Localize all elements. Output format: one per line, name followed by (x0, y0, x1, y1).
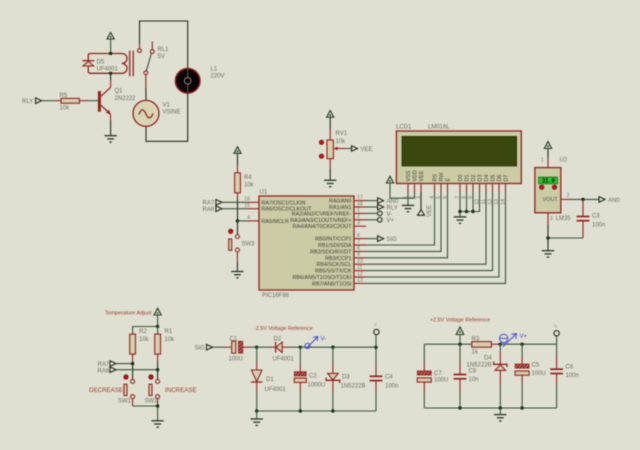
svg-text:D1: D1 (266, 377, 274, 383)
svg-text:D7: D7 (504, 175, 510, 182)
svg-text:10k: 10k (165, 337, 176, 343)
wire: LM35 VOUT to AN0 (561, 193, 599, 199)
wire: junction to right corner (500, 343, 556, 345)
ground (-2.5V rail) (251, 411, 263, 425)
svg-text:1N5222B: 1N5222B (341, 384, 366, 390)
terminal V+ (PIC pin 2) (366, 218, 395, 225)
lamp L1 220V (175, 67, 224, 94)
svg-text:4: 4 (247, 215, 250, 221)
svg-text:10k: 10k (336, 139, 347, 145)
capacitor C6 100n (550, 344, 579, 408)
svg-text:VEE: VEE (361, 147, 373, 153)
wire: C3 bottom to LM35 ground (548, 237, 583, 239)
svg-text:AN0: AN0 (387, 199, 399, 205)
terminal circle (+2.5V output) (554, 324, 559, 345)
svg-text:D6: D6 (497, 175, 503, 182)
capacitor C5 100U (515, 344, 546, 408)
terminal RLY (PIC pin 18) (366, 204, 398, 211)
svg-text:Q1: Q1 (115, 89, 124, 95)
svg-text:RA7: RA7 (98, 362, 110, 368)
resistor R3 1k (472, 337, 501, 356)
resistor R1 10k (155, 327, 175, 380)
svg-text:C8: C8 (469, 369, 477, 375)
svg-text:²₀: ²₀ (554, 324, 557, 329)
svg-text:100n: 100n (566, 373, 579, 379)
terminal AN0 (PIC pin 17) (366, 198, 399, 205)
svg-text:V-: V- (387, 212, 393, 218)
svg-text:6: 6 (357, 233, 360, 239)
wire: LCD D4 to PIC RB4 (366, 192, 486, 264)
terminal V- (PIC pin 1) (366, 211, 392, 218)
relay switch RL1 contacts (138, 41, 170, 74)
svg-text:C3: C3 (592, 214, 600, 220)
wire: LCD VSS to ground (407, 192, 409, 205)
svg-text:RA7/OSC1/CLKIN: RA7/OSC1/CLKIN (262, 200, 306, 206)
wire: +2.5V top rail left (424, 343, 472, 345)
resistor R5 10k (55, 93, 98, 112)
transistor Q1 2N2222 (98, 75, 136, 122)
svg-text:RA6: RA6 (203, 207, 215, 213)
wire: LM35 pin 3 to ground (548, 213, 553, 251)
wire: LCD RS to PIC RB1 (366, 192, 435, 245)
svg-text:UF4001: UF4001 (97, 67, 119, 73)
capacitor C7 100U (417, 344, 448, 408)
node D0 bus junctions (458, 210, 474, 213)
svg-text:10k: 10k (244, 183, 255, 189)
lcd LCD1 LM016L body (396, 125, 521, 184)
power symbol (temperature adjust) (154, 308, 161, 326)
svg-text:R3: R3 (472, 337, 480, 343)
svg-text:D5: D5 (97, 60, 105, 66)
capacitor C1 100U (225, 337, 257, 363)
pic U1 PIC16F88 body (259, 190, 354, 300)
svg-text:RA2/AN2/CVREF/VREF-: RA2/AN2/CVREF/VREF- (292, 211, 352, 217)
relay coil RL1 (88, 51, 133, 76)
power symbol (LCD VDD) (386, 176, 393, 183)
svg-text:RV1: RV1 (336, 131, 348, 137)
svg-text:3: 3 (550, 216, 553, 222)
pic U1 left pin stubs (244, 197, 259, 222)
capacitor C4 100n (370, 347, 399, 411)
power symbol (relay coil supply) (107, 33, 114, 54)
svg-text:RB7/AN6/T1OSI: RB7/AN6/T1OSI (312, 281, 352, 287)
svg-text:V+: V+ (387, 218, 395, 224)
terminal SIG (PIC pin 6) (366, 236, 397, 243)
wire: MCLR to PIC pin 4 (238, 220, 248, 222)
svg-text:220V: 220V (211, 74, 225, 80)
svg-text:+2.5V Voltage Reference: +2.5V Voltage Reference (430, 318, 490, 324)
svg-text:-2.5V Voltage Reference: -2.5V Voltage Reference (254, 326, 313, 332)
pic U1 right pin names (290, 199, 352, 288)
svg-text:2: 2 (357, 214, 360, 220)
wire: lamp bottom to rail (146, 93, 188, 141)
svg-text:11: 11 (357, 265, 362, 271)
svg-text:D2: D2 (471, 175, 477, 182)
svg-text:RB1/SDI/SDA: RB1/SDI/SDA (318, 243, 352, 249)
ground (LM35) (542, 251, 554, 257)
terminal RA6 (bottom left) (98, 367, 158, 375)
ground (LCD VSS) (402, 205, 414, 211)
svg-text:RB4/SCK/SCL: RB4/SCK/SCL (316, 262, 351, 268)
wire: top rail to lamp (140, 21, 188, 69)
svg-text:C5: C5 (532, 363, 540, 369)
svg-text:D3: D3 (342, 375, 350, 381)
svg-text:C2: C2 (309, 374, 317, 380)
wire: junction to D2 (257, 346, 270, 348)
svg-text:D2: D2 (274, 337, 282, 343)
node R1 top junction (156, 325, 159, 328)
node VOUT/C3 junction (581, 198, 584, 201)
lcd pin names (rotated) (406, 170, 510, 181)
svg-text:SW2: SW2 (145, 399, 159, 405)
diode D1 UF4001 (251, 347, 287, 411)
svg-text:18: 18 (357, 201, 363, 207)
wire: output rail to C4 (300, 346, 376, 348)
terminal circle (-2.5V output) (374, 323, 380, 348)
svg-text:R4: R4 (244, 175, 252, 181)
svg-text:D4: D4 (484, 175, 490, 182)
svg-text:100n: 100n (592, 223, 605, 229)
svg-text:100U: 100U (229, 357, 243, 363)
diode D2 UF4001 (270, 337, 301, 363)
svg-text:D0: D0 (458, 175, 464, 182)
terminal AN0 (LM35 out) (599, 197, 620, 204)
capacitor C3 100n (577, 199, 606, 238)
svg-text:C6: C6 (566, 365, 574, 371)
svg-text:VDD: VDD (413, 170, 419, 181)
svg-text:RB3/CCP1: RB3/CCP1 (325, 256, 351, 262)
svg-text:R1: R1 (165, 329, 173, 335)
svg-text:V-: V- (321, 337, 327, 343)
wire: LCD D7 to PIC RB7 (366, 192, 506, 283)
svg-text:R5: R5 (60, 93, 68, 99)
sine source V1 VSINE (133, 100, 181, 126)
svg-text:VSS: VSS (406, 170, 412, 181)
lcd pin stubs (408, 184, 506, 193)
node R3/D4 junction (499, 343, 502, 346)
svg-text:C4: C4 (385, 375, 393, 381)
svg-text:1: 1 (357, 208, 360, 214)
svg-text:RLY: RLY (22, 99, 33, 105)
power symbol (LM35) (541, 142, 568, 168)
svg-text:VOUT: VOUT (543, 197, 559, 203)
capacitor C2 1000U (294, 347, 325, 411)
svg-text:V+: V+ (520, 334, 528, 340)
svg-text:10: 10 (357, 259, 363, 265)
node: coil top junction (109, 52, 112, 55)
resistor R2 10k (130, 329, 150, 380)
wire: R4 to SW3 / MCLR node (237, 193, 239, 235)
pic U1 left pin names (262, 200, 313, 225)
svg-text:RA4/AN4/T0CKI/C2OUT: RA4/AN4/T0CKI/C2OUT (292, 224, 352, 230)
zener D3 1N5222B (326, 347, 365, 411)
svg-text:12: 12 (357, 271, 363, 277)
svg-text:AN0: AN0 (608, 198, 620, 204)
terminal VEE (LCD pin3) (418, 192, 434, 217)
resistor R4 10k (235, 173, 255, 193)
ground (SW3) (231, 272, 243, 278)
node bottom rail junctions (+2.5V) (458, 406, 524, 409)
wire: switches to ground (133, 406, 158, 421)
svg-text:RA1/AN1: RA1/AN1 (329, 205, 351, 211)
svg-text:LM35: LM35 (556, 216, 572, 222)
ground (switches) (151, 421, 163, 427)
node RA6/R1 junction (156, 368, 159, 371)
svg-text:DECREASE: DECREASE (89, 387, 123, 394)
svg-text:RA6: RA6 (98, 368, 110, 374)
node MCLR junction (236, 219, 240, 223)
svg-text:2N2222: 2N2222 (115, 96, 137, 102)
power symbol (RV1) (327, 111, 334, 141)
sensor U2 LM35 (535, 168, 571, 222)
node RA7/R2 junction (131, 362, 134, 365)
svg-text:D5: D5 (491, 175, 497, 182)
svg-text:16: 16 (244, 197, 250, 203)
svg-text:C7: C7 (434, 371, 442, 377)
svg-text:RA3/AN3/C1OUT/VREF+: RA3/AN3/C1OUT/VREF+ (290, 218, 351, 224)
node C5 top junction (520, 343, 523, 346)
terminal VEE (RV1 wiper) (352, 146, 373, 153)
svg-text:C1: C1 (230, 337, 238, 343)
wire: supply to R2 (133, 327, 158, 335)
ground (+2.5V rail) (494, 408, 506, 421)
svg-text:RB0/INT/CCP1: RB0/INT/CCP1 (315, 237, 352, 243)
svg-text:2: 2 (567, 193, 570, 199)
svg-text:10k: 10k (60, 106, 71, 112)
wire: -2.5V bottom rail (257, 410, 376, 412)
wire: LCD RW to PIC RB2 (366, 192, 441, 251)
svg-text:U1: U1 (260, 190, 268, 196)
diode D5 UF4001 (flyback across coil) (82, 60, 118, 73)
ground (LCD data bus) (454, 217, 466, 223)
terminal RA6 (to PIC) (203, 206, 248, 213)
svg-text:RB2/SDO/RX/DT: RB2/SDO/RX/DT (310, 249, 352, 255)
svg-text:RLY: RLY (387, 205, 398, 211)
svg-text:D1: D1 (465, 175, 471, 182)
svg-text:LCD1: LCD1 (396, 125, 412, 131)
svg-text:-²: -² (374, 323, 377, 328)
terminal SIG (bottom) (195, 344, 225, 351)
node C4 top junction (374, 346, 377, 349)
svg-text:7: 7 (357, 239, 360, 245)
node LM35 pin3 junction (546, 236, 549, 239)
wire: LCD D5 to PIC RB5 (366, 192, 493, 271)
wire: LCD D0-D3 bus to ground (460, 192, 480, 217)
svg-text:LM016L: LM016L (428, 125, 450, 131)
svg-text:E: E (446, 178, 452, 182)
svg-text:SW3: SW3 (242, 242, 256, 248)
pot RV1 10k (319, 131, 351, 180)
svg-text:100U: 100U (434, 378, 448, 384)
svg-text:17: 17 (357, 195, 363, 201)
svg-text:10n: 10n (469, 377, 479, 383)
wire: LCD E to PIC RB3 (366, 192, 448, 258)
svg-text:SIG: SIG (195, 346, 206, 352)
svg-text:Temperature Adjust: Temperature Adjust (105, 311, 152, 317)
svg-text:15: 15 (244, 203, 250, 209)
svg-text:9: 9 (357, 252, 360, 258)
svg-text:5V: 5V (158, 54, 165, 60)
switch SW3 (229, 229, 256, 271)
node C1/D1 junction (255, 346, 258, 349)
svg-text:UF4001: UF4001 (273, 357, 295, 363)
svg-text:D4: D4 (484, 356, 492, 362)
node D3 top junction (331, 346, 334, 349)
node C8 top junction (458, 343, 461, 346)
wire: LCD D6 to PIC RB6 (366, 192, 499, 277)
svg-text:U2: U2 (560, 158, 568, 164)
svg-text:RA7: RA7 (203, 201, 215, 207)
svg-text:L1: L1 (211, 67, 218, 73)
svg-text:1N5222B: 1N5222B (467, 363, 492, 369)
node SW2 ground junction (156, 404, 159, 407)
wire: switch pole to V1 (145, 75, 147, 101)
svg-text:31.0: 31.0 (542, 178, 556, 185)
svg-text:R2: R2 (139, 329, 147, 335)
pic U1 right pin stubs and numbers (354, 195, 366, 284)
svg-text:RA0/AN0: RA0/AN0 (329, 199, 351, 205)
svg-text:RB5/SS/TX/CK: RB5/SS/TX/CK (315, 269, 352, 275)
ground (RV1) (324, 180, 336, 186)
terminal RA7 (to PIC) (203, 200, 248, 207)
svg-text:RB6/AN5/T1OSO/T1CKI: RB6/AN5/T1OSO/T1CKI (292, 275, 351, 281)
probe V+ (500, 334, 528, 347)
svg-text:PIC16F88: PIC16F88 (262, 293, 290, 299)
svg-text:1k: 1k (472, 350, 479, 356)
svg-text:VEE: VEE (419, 170, 425, 181)
terminal RA7 (bottom left) (98, 361, 133, 368)
svg-text:V1: V1 (163, 103, 171, 109)
wire: +2.5V bottom rail (424, 407, 556, 409)
power symbol (MCLR pull-up) (234, 147, 241, 173)
node: coil bottom junction (109, 72, 112, 75)
svg-text:RL1: RL1 (158, 47, 170, 53)
probe V- (305, 337, 326, 349)
ground (emitter) (104, 121, 116, 142)
svg-text:UF4001: UF4001 (265, 387, 287, 393)
svg-text:3: 3 (357, 221, 360, 227)
node bottom rail junctions (255, 409, 335, 412)
svg-text:RW: RW (439, 172, 445, 182)
svg-text:VEE: VEE (427, 205, 433, 217)
zener D4 1N5222B (467, 344, 508, 408)
svg-text:INCREASE: INCREASE (165, 387, 197, 394)
svg-text:RS: RS (433, 174, 439, 182)
node D2/C2 junction (299, 346, 302, 349)
power symbol (+2.5V) (456, 327, 464, 344)
switch SW2 INCREASE (145, 375, 197, 406)
svg-text:VSINE: VSINE (163, 110, 181, 116)
svg-text:13: 13 (357, 278, 363, 284)
wire: LCD VDD to power (390, 183, 415, 198)
svg-text:SIG: SIG (387, 237, 398, 243)
lcd pin numbers (rotated) (403, 196, 507, 205)
svg-text:100n: 100n (385, 384, 398, 390)
svg-text:100U: 100U (532, 371, 546, 377)
svg-text:SW1: SW1 (118, 399, 132, 405)
svg-text:1000U: 1000U (308, 383, 326, 389)
svg-text:D3: D3 (478, 175, 484, 182)
svg-text:1: 1 (541, 158, 544, 164)
terminal RLY (input) (22, 98, 55, 105)
switch SW1 DECREASE (89, 375, 135, 406)
svg-text:8: 8 (357, 246, 360, 252)
svg-text:RA5/MCLR: RA5/MCLR (262, 219, 289, 225)
svg-text:10k: 10k (139, 337, 150, 343)
capacitor C8 10n (454, 344, 479, 408)
